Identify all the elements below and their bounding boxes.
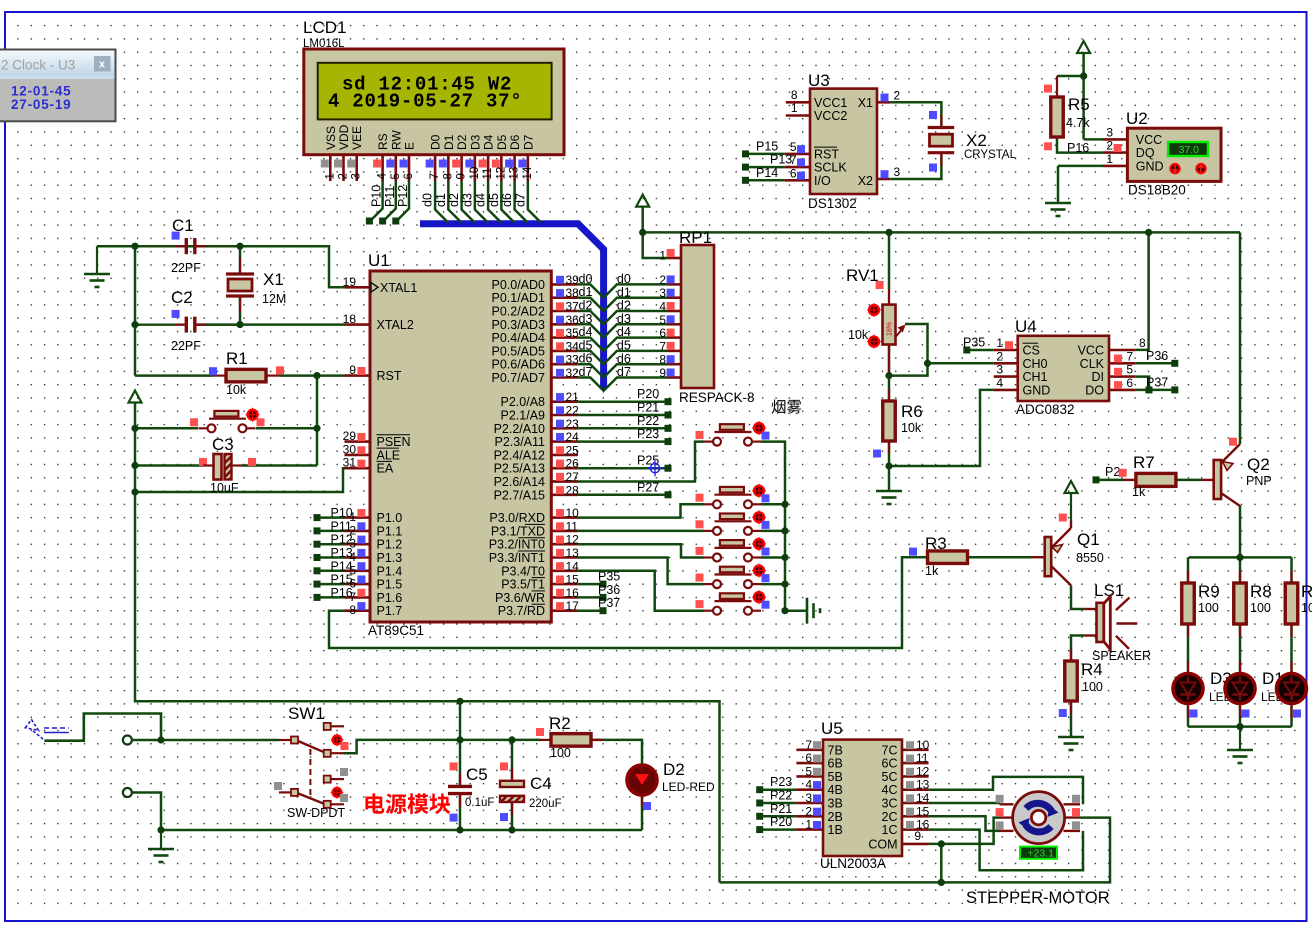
pin U5 2B [796,815,823,818]
svg-text:d4: d4 [617,325,631,339]
stepper motor [1013,792,1065,844]
terminal P23 [665,438,672,445]
svg-text:P14: P14 [331,559,353,573]
wire SW1 out to R2 row [344,740,540,753]
svg-text:2: 2 [805,804,812,818]
pin P3.6 [551,596,578,599]
svg-text:35: 35 [566,326,580,340]
junction (460,830) [456,826,463,833]
pin U3-7 SCLK [785,166,810,169]
pin P2.1 [551,414,578,417]
svg-text:1C: 1C [882,823,898,837]
R6 lead stubs [888,389,890,401]
svg-text:18%: 18% [887,322,894,336]
svg-text:7B: 7B [828,743,843,757]
svg-text:6: 6 [1126,376,1133,390]
junction (460,701.3) [456,698,463,705]
switch SW1 link dashed [309,749,311,795]
svg-text:4: 4 [805,778,812,792]
terminal P37 [600,607,607,614]
ground U2 [1045,203,1071,216]
button SMOKE1 [704,432,761,442]
resistor R8 [1234,583,1247,624]
svg-text:P0.3/AD3: P0.3/AD3 [491,318,545,332]
junction (240,324.6) [236,321,243,328]
svg-text:P1.7: P1.7 [377,604,403,618]
svg-text:27-05-19: 27-05-19 [11,97,71,112]
wire D2 bottom [641,794,644,830]
terminal P22 [665,425,672,432]
svg-text:39: 39 [566,273,580,287]
svg-text:21: 21 [566,390,580,404]
svg-text:32: 32 [566,366,580,380]
svg-text:29: 29 [343,429,357,443]
pin XTAL1 [345,286,371,289]
svg-text:VCC: VCC [1078,344,1104,358]
svg-text:PSEN: PSEN [377,435,411,449]
svg-text:PNP: PNP [1246,474,1272,488]
wire R5 bottom to U2 DQ P16 net [1057,136,1103,153]
wire P21 net [578,414,668,417]
svg-text:33: 33 [566,353,580,367]
svg-text:P15: P15 [331,573,353,587]
svg-text:C2: C2 [171,288,193,307]
svg-text:d3: d3 [579,312,593,326]
label power module [365,793,384,813]
junction (135,465.5) [131,462,138,469]
svg-text:STEPPER-MOTOR: STEPPER-MOTOR [966,889,1110,907]
svg-text:P1.2: P1.2 [377,538,403,552]
wire P25 net [578,467,668,470]
svg-text:X1: X1 [263,270,284,289]
wire R9 to D3 [1187,624,1190,673]
svg-text:VCC1: VCC1 [814,96,847,110]
wire VCC drop to U4 VCC [1136,232,1149,350]
svg-text:U1: U1 [368,251,390,270]
svg-text:CRYSTAL: CRYSTAL [964,149,1017,161]
svg-text:12: 12 [495,167,507,180]
wire D3 bottom [1187,704,1190,727]
junction (1240,557.4) [1236,554,1243,561]
svg-text:P3.1/TXD: P3.1/TXD [491,524,545,538]
svg-text:C4: C4 [530,774,552,793]
terminal P13 [314,554,321,561]
pin P0.0 [551,283,578,286]
svg-text:7: 7 [1126,349,1133,363]
svg-text:3: 3 [996,363,1003,377]
pin P0.2 [551,310,578,313]
wire P15 to U3 RST [748,153,785,156]
svg-text:2C: 2C [882,810,898,824]
svg-text:4: 4 [996,376,1003,390]
terminal P16 [314,594,321,601]
pin P2.6 [551,480,578,483]
junction (1240,726.6) [1236,723,1243,730]
svg-text:15: 15 [566,573,580,587]
resistor R1 [213,375,226,377]
pin U4-4 [994,389,1018,392]
wire U5 2C to motor left-bottom [929,816,1000,831]
R4 lead stubs [1070,649,1072,661]
resistor R3 [928,551,968,564]
svg-text:LCD1: LCD1 [303,18,346,37]
wire P0 pins to bus [578,284,604,297]
svg-text:23: 23 [566,417,580,431]
svg-text:10: 10 [469,167,481,180]
svg-text:CS: CS [1023,344,1040,358]
svg-text:d5: d5 [617,339,631,353]
wire R5 top [1057,75,1084,78]
svg-text:38: 38 [566,286,580,300]
svg-text:D7: D7 [521,134,535,150]
wire C4 bottom [511,802,514,830]
svg-text:5B: 5B [828,770,843,784]
svg-text:3: 3 [351,173,363,179]
wire C2 row to XTAL2 [196,323,345,326]
svg-text:P2: P2 [1105,465,1120,479]
svg-text:1: 1 [324,173,336,179]
svg-text:VEE: VEE [350,126,364,150]
svg-text:8: 8 [349,603,356,617]
svg-text:26: 26 [566,457,580,471]
svg-text:R7: R7 [1133,453,1155,472]
svg-text:2B: 2B [828,810,843,824]
terminal P15 [314,581,321,588]
terminal P12 [314,541,321,548]
terminal circle bottom [123,788,132,797]
junction (512,739.9) [508,736,515,743]
svg-text:22PF: 22PF [171,339,201,353]
svg-text:P13: P13 [331,546,353,560]
wire left gnd rail vertical [134,246,137,375]
svg-text:100: 100 [1198,601,1219,615]
svg-text:U5: U5 [821,719,843,738]
svg-text:10: 10 [1301,601,1312,615]
svg-text:d6: d6 [617,352,631,366]
D2 lead stubs [641,766,643,771]
svg-text:4B: 4B [828,783,843,797]
crystal X2 [928,126,955,129]
svg-text:10: 10 [916,738,930,752]
svg-text:30: 30 [343,442,357,456]
svg-text:4: 4 [659,300,666,314]
wire P14 to U3 I/O [748,179,785,182]
svg-text:P2.2/A10: P2.2/A10 [494,422,545,436]
svg-text:11: 11 [566,519,579,533]
wire R1 right to RST [280,374,345,377]
pin U3-3 X2 [877,178,890,181]
pin U5 4B [796,788,823,791]
terminal P27 [665,491,672,498]
wire EA to VCC rail [135,468,345,492]
svg-text:P1.4: P1.4 [377,564,403,578]
svg-text:ADC0832: ADC0832 [1016,402,1075,417]
svg-text:9: 9 [456,173,468,179]
junction (135,428.3) [131,425,138,432]
svg-text:9: 9 [349,363,356,377]
svg-text:LED-RED: LED-RED [662,780,715,794]
svg-text:R4: R4 [1081,660,1103,679]
svg-text:P0.1/AD1: P0.1/AD1 [491,291,545,305]
svg-text:d2: d2 [579,299,593,313]
stepper motor pins [1000,803,1014,805]
svg-text:P1.5: P1.5 [377,578,403,592]
svg-text:14: 14 [522,166,534,179]
svg-text:P21: P21 [770,802,792,816]
pin U5 6B [796,762,823,765]
svg-text:10: 10 [566,506,580,520]
svg-text:1: 1 [791,101,798,115]
wire U2 GND to ground [1058,165,1103,168]
button RESET [199,419,256,429]
svg-text:d4: d4 [579,325,593,339]
terminal P35 U4 [963,347,970,354]
svg-text:0.1uF: 0.1uF [465,797,494,809]
junction (460,739.9) [456,736,463,743]
svg-text:SW-DPDT: SW-DPDT [287,806,345,820]
svg-text:d5: d5 [487,193,501,207]
pin U5 3C [902,802,929,805]
svg-text:EA: EA [377,462,394,476]
svg-text:U4: U4 [1015,317,1037,336]
pin PSEN [345,440,371,443]
bus LCD data bus [420,224,604,386]
terminal P36 U4 [1171,360,1178,367]
svg-text:+23.1: +23.1 [1027,847,1054,859]
svg-text:5: 5 [1126,363,1133,377]
wire buttons common vertical [761,442,806,611]
svg-text:AT89C51: AT89C51 [368,623,424,638]
junction (135,246.2) [131,243,138,250]
wire U5 COM to motor left-middle [929,818,1000,844]
svg-text:3: 3 [805,791,812,805]
cursor crosshair [647,460,663,476]
pin U5 1C [902,828,929,831]
pin U5 3B [796,802,823,805]
svg-text:24: 24 [566,430,580,444]
svg-text:P3.0/RXD: P3.0/RXD [489,511,545,525]
wire LED rail top [1189,556,1292,559]
wire bus to RP1 pins [604,284,668,297]
pin P0.1 [551,296,578,299]
pin P3.3 [551,556,578,559]
svg-text:RESPACK-8: RESPACK-8 [679,390,755,405]
svg-text:d1: d1 [617,285,631,299]
pin P3.5 [551,583,578,586]
svg-text:5: 5 [390,173,402,179]
pin P1.4 [345,569,371,572]
terminal P20 [665,398,672,405]
svg-text:100: 100 [550,746,571,760]
svg-text:D2: D2 [663,760,685,779]
wire P3.4 to button6 [578,571,704,611]
svg-text:6B: 6B [828,757,843,771]
svg-text:P3.5/T1: P3.5/T1 [501,578,545,592]
svg-text:P0.4/AD4: P0.4/AD4 [491,331,545,345]
resistor R9 [1182,583,1195,624]
wire P1.7 long net [329,557,928,648]
transistor Q2 PNP [1214,460,1221,499]
wire D4 bottom [1239,704,1242,727]
ground R6 [876,491,902,504]
svg-text:2: 2 [996,349,1003,363]
svg-text:P0.7/AD7: P0.7/AD7 [491,371,545,385]
power arrow R5 [1077,41,1090,53]
pin U4-6 [1109,389,1136,392]
pin U4-7 [1109,362,1136,365]
svg-text:R3: R3 [925,534,947,553]
svg-text:Q1: Q1 [1077,530,1100,549]
switch SW1 pole2 [279,791,291,793]
svg-text:P2.6/A14: P2.6/A14 [494,475,545,489]
pin RP1-5 [668,323,681,326]
svg-text:1: 1 [996,336,1003,350]
svg-text:P0.6/AD6: P0.6/AD6 [491,358,545,372]
C5 C4 lead stubs [459,774,461,787]
terminal P14 [314,567,321,574]
svg-text:GND: GND [1023,383,1051,397]
wire P3.0 to button2 [578,504,704,517]
wire P23 net [578,440,668,443]
wire P13 to U3 SCLK [748,166,785,169]
pin RP1-3 [668,296,681,299]
svg-text:8: 8 [442,173,454,179]
button SMOKE2 [704,495,761,505]
pin P2.5 [551,467,578,470]
svg-text:3: 3 [1106,125,1113,139]
pin P1.7 [345,609,371,612]
svg-text:ALE: ALE [377,448,401,462]
wire U2 VCC [1084,138,1103,141]
wire P22 to U5 3B [763,802,796,805]
battery icon blue [25,720,68,741]
svg-text:CLK: CLK [1080,357,1105,371]
pin U5 5B [796,775,823,778]
svg-text:P37: P37 [598,596,620,610]
crystal X1 [226,272,254,275]
junction (317,428.3) [313,425,320,432]
ground LEDs [1239,727,1241,749]
svg-text:14: 14 [566,559,580,573]
pin U3-5 RST [785,153,810,156]
pin P3.7 [551,609,578,612]
svg-text:11: 11 [482,168,494,180]
pin U2-1 [1103,165,1127,168]
power arrow left rail [129,391,142,403]
wire reset button row [135,427,198,430]
svg-text:4.7k: 4.7k [1066,116,1090,130]
svg-text:7C: 7C [882,743,898,757]
wire P27 net [578,494,668,497]
svg-text:2: 2 [338,173,350,179]
svg-text:28: 28 [566,483,580,497]
svg-text:Q2: Q2 [1247,455,1270,474]
wire R7 to Q2 base [1176,479,1201,482]
svg-text:P3.6/WR: P3.6/WR [495,591,545,605]
wire circle to SW1 [132,739,279,742]
terminal P23 U5 [756,786,763,793]
LED D3 [1173,674,1203,704]
svg-text:P10: P10 [331,506,353,520]
label smoke [772,400,786,414]
terminal P37 U4 [1171,386,1178,393]
svg-text:P0.2/AD2: P0.2/AD2 [491,305,545,319]
resistor R7 [1124,479,1136,481]
svg-text:P2.4/A12: P2.4/A12 [494,448,545,462]
svg-text:P0.5/AD5: P0.5/AD5 [491,344,545,358]
junction (785,530.9) [781,527,788,534]
capacitor C5 [448,785,472,788]
wire VCC drop to Q2 emitter [1239,232,1242,444]
svg-text:P12: P12 [396,185,410,207]
terminal P11 [314,527,321,534]
svg-text:6: 6 [659,326,666,340]
svg-text:P1.6: P1.6 [377,591,403,605]
svg-text:1: 1 [1106,152,1113,166]
pin P0.5 [551,350,578,353]
svg-text:6: 6 [403,173,415,179]
terminal P12 [392,218,399,225]
pin P2.2 [551,427,578,430]
svg-text:DO: DO [1085,383,1104,397]
svg-text:22: 22 [566,404,580,418]
svg-text:19: 19 [343,275,357,289]
svg-text:7: 7 [805,738,812,752]
LED D1 [1277,674,1307,704]
svg-text:R2: R2 [549,714,571,733]
pin U5 4C [902,788,929,791]
junction (642.7,232.4) [639,229,646,236]
svg-text:37: 37 [566,300,580,314]
svg-text:RST: RST [377,369,402,383]
pin P3.1 [551,530,578,533]
ground power [160,830,162,848]
pin U5 6C [902,762,929,765]
terminal P14 [742,177,749,184]
wire P20 to U5 1B [763,828,796,831]
capacitor C4 [500,781,524,787]
wire R8 drop [1239,557,1242,583]
svg-text:P1.3: P1.3 [377,551,403,565]
wire gnd row to C5/C4/D2 [161,829,642,832]
svg-text:5C: 5C [882,770,898,784]
pin P0.6 [551,363,578,366]
junction (1083.6,76) [1080,72,1087,79]
svg-text:P35: P35 [598,570,620,584]
svg-text:13: 13 [916,778,930,792]
svg-text:P3.3/INT1: P3.3/INT1 [489,551,545,565]
wire P21 to U5 2B [763,815,796,818]
junction (1148.6,232.4) [1145,229,1152,236]
svg-text:XTAL1: XTAL1 [380,281,417,295]
wire U4 CLK to P36 [1136,362,1172,365]
svg-text:d5: d5 [579,338,593,352]
pin P1.0 [345,516,371,519]
svg-text:d4: d4 [474,193,488,207]
svg-text:d1: d1 [434,193,448,207]
svg-text:P2.3/A11: P2.3/A11 [494,435,545,449]
svg-text:P23: P23 [770,775,792,789]
svg-text:D3: D3 [468,134,482,150]
svg-text:U3: U3 [808,71,830,90]
svg-text:d6: d6 [500,193,514,207]
wire P23 to U5 4B [763,788,796,791]
svg-text:P22: P22 [770,789,792,803]
junction (785,610.7) [781,607,788,614]
wire R3 left [913,556,928,559]
junction (785,557.5) [781,554,788,561]
svg-text:D6: D6 [508,134,522,150]
